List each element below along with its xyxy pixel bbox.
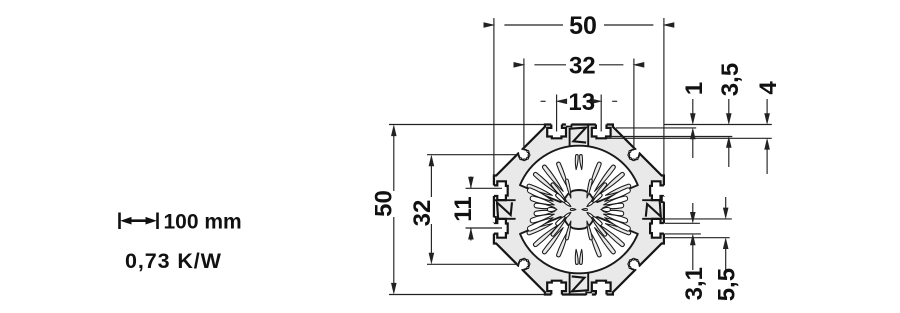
fan side slot A upper-right: [605, 188, 631, 201]
screw hole top-right (with opening through chamfer face): [634, 146, 642, 154]
fan eye slot E upper-left: [565, 201, 571, 206]
svg-text:50: 50: [370, 190, 397, 217]
svg-text:13: 13: [568, 89, 595, 116]
fan eye slot E lower-left: [565, 212, 571, 217]
fan side slot C upper-right: [603, 203, 624, 209]
T-slot bottom face left: [547, 281, 566, 296]
svg-text:3,5: 3,5: [717, 63, 744, 96]
fan side slot B upper-left: [530, 196, 554, 205]
fan side slot A upper-left: [527, 188, 553, 201]
clip web top face: [566, 123, 588, 146]
dimension group 1 / 3,5 / 4 (top slot depths, right side): [607, 63, 783, 174]
fan blade: [580, 249, 583, 264]
fan blade: [587, 221, 592, 240]
fan blade: [605, 184, 630, 195]
T-slot left face lower: [492, 219, 507, 238]
fan side slot B lower-left: [530, 214, 554, 223]
fan blade: [533, 225, 558, 246]
fan side slot C lower-right: [603, 210, 624, 216]
svg-text:3,1: 3,1: [681, 267, 708, 300]
T-slot top face right: [592, 123, 611, 138]
screw hole top-left (with opening through chamfer face): [516, 146, 524, 154]
fan blade: [587, 179, 592, 198]
screw hole bottom-left (with opening through chamfer face): [516, 265, 524, 273]
fan center dash: [570, 209, 575, 211]
fan blade: [591, 183, 606, 201]
fan eye slot D lower-left: [556, 215, 566, 225]
svg-text:1: 1: [681, 82, 708, 95]
fan blade: [605, 224, 630, 235]
fan blade: [557, 162, 569, 189]
clip web left face: [493, 200, 516, 222]
fan eye slot E lower-right: [587, 212, 593, 217]
dimension 11 (T-slot spacing, left): [450, 177, 502, 241]
fan horizontal side lens: [547, 207, 556, 211]
dimension group 3,1 / 5,5 (right slot opening): [664, 197, 740, 301]
fan blade: [575, 249, 578, 264]
svg-text:50: 50: [569, 12, 597, 40]
svg-text:0,73 K/W: 0,73 K/W: [125, 249, 222, 273]
dimension 32 (screw hole spacing, left): [409, 155, 518, 265]
fan side slot B upper-right: [604, 196, 628, 205]
fan blade: [600, 225, 625, 246]
fan blade: [551, 218, 566, 236]
fan blade: [527, 184, 552, 195]
fan horizontal side lens: [601, 207, 610, 211]
fan blade: [557, 230, 569, 257]
heatsink profile body (octagonal extrusion outline): [494, 125, 664, 295]
T-slot right face upper: [650, 181, 665, 200]
fan blade: [580, 155, 583, 170]
fan aperture upper dome: [520, 146, 638, 202]
fan blade: [591, 218, 606, 236]
dimension 32 (screw hole spacing, top): [514, 53, 645, 150]
screw hole bottom-right (with opening through chamfer face): [634, 265, 642, 273]
fan aperture lower dome: [520, 217, 638, 273]
fan eye slot D upper-right: [592, 194, 602, 204]
clip web bottom face: [570, 273, 592, 296]
svg-text:32: 32: [409, 200, 436, 227]
T-slot bottom face right: [592, 281, 611, 296]
fan center dash: [582, 209, 587, 211]
T-slot top face left: [547, 123, 566, 138]
fan side slot A lower-right: [605, 218, 631, 231]
fan blade: [600, 172, 625, 193]
dimension 50 (top overall width): [484, 12, 675, 176]
fan blade: [527, 224, 552, 235]
fan blade: [595, 228, 616, 254]
fan blade: [551, 183, 566, 201]
fan side slot A lower-left: [527, 218, 553, 231]
fan blade: [575, 155, 578, 170]
fan blade: [589, 162, 601, 189]
fan blade: [565, 221, 570, 240]
svg-text:4: 4: [755, 81, 782, 95]
fan eye slot E upper-right: [587, 201, 593, 206]
T-slot right face lower: [650, 219, 665, 238]
fan side slot C lower-left: [534, 210, 555, 216]
fan blade: [533, 172, 558, 193]
dimension 13 (T-slot spacing, top): [541, 89, 618, 131]
clip web right face: [642, 197, 665, 219]
dimension 50 (left overall height): [370, 124, 545, 294]
svg-text:32: 32: [569, 53, 596, 80]
svg-text:11: 11: [450, 196, 477, 221]
svg-text:100 mm: 100 mm: [164, 210, 242, 233]
svg-text:5,5: 5,5: [714, 268, 741, 301]
fan eye slot D lower-right: [592, 215, 602, 225]
fan side slot B lower-right: [604, 214, 628, 223]
fan blade: [589, 230, 601, 257]
fan blade: [595, 165, 616, 191]
T-slot left face upper: [492, 181, 507, 200]
length annotation |<->| 100 mm: [120, 210, 242, 233]
fan blade: [542, 165, 563, 191]
fan blade: [542, 228, 563, 254]
fan blade: [565, 179, 570, 198]
fan eye slot D upper-left: [556, 194, 566, 204]
fan side slot C upper-left: [534, 203, 555, 209]
